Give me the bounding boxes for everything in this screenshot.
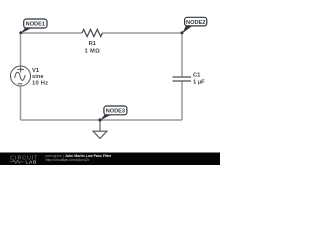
svg-text:10 Hz: 10 Hz xyxy=(32,80,48,86)
ground symbol triangle xyxy=(93,131,107,138)
node NODE2 callout tail xyxy=(182,26,193,34)
wire right from NODE2 corner down to C1 top plate xyxy=(181,33,183,77)
wire bottom rail xyxy=(21,119,183,121)
wire right from C1 bottom plate down to bottom rail xyxy=(181,81,183,120)
svg-text:LAB: LAB xyxy=(26,160,37,165)
svg-text:1 µF: 1 µF xyxy=(193,80,205,86)
junction dot at ground tap xyxy=(98,118,101,121)
svg-text:NODE2: NODE2 xyxy=(186,20,205,26)
node NODE1 callout tail xyxy=(21,28,32,34)
footer logo zigzag xyxy=(10,160,24,163)
voltage source V1 circle xyxy=(11,66,31,86)
svg-text:R1: R1 xyxy=(89,41,97,47)
ground stub wire xyxy=(99,120,101,131)
V1 minus sign xyxy=(18,83,23,85)
svg-text:NODE1: NODE1 xyxy=(26,21,45,27)
svg-text:NODE3: NODE3 xyxy=(106,109,125,115)
wire top from resistor R1 right lead to NODE2 corner xyxy=(103,32,183,34)
svg-text:V1: V1 xyxy=(32,68,40,74)
node NODE3 box xyxy=(104,106,127,115)
V1 plus sign xyxy=(17,66,24,72)
node NODE2 box xyxy=(185,17,207,26)
capacitor C1 top plate xyxy=(173,76,192,78)
svg-text:1 MΩ: 1 MΩ xyxy=(85,48,101,54)
junction dot at NODE2 corner xyxy=(181,31,184,34)
svg-text:C1: C1 xyxy=(193,73,201,79)
node NODE1 box xyxy=(24,19,47,28)
resistor R1 zigzag xyxy=(82,29,103,36)
capacitor C1 bottom plate xyxy=(173,80,192,82)
wire left from V1 bottom down to bottom rail xyxy=(20,87,22,121)
junction dot at NODE1 corner xyxy=(19,31,22,34)
svg-text:sine: sine xyxy=(32,74,44,80)
footer bar xyxy=(0,153,220,166)
wire top from NODE1 corner to resistor R1 left lead xyxy=(21,32,83,34)
V1 sine wave xyxy=(15,72,26,80)
svg-text:http://circuitlab.com/c6cv42t: http://circuitlab.com/c6cv42t xyxy=(46,158,89,162)
wire left from NODE1 corner down to V1 top xyxy=(20,33,22,66)
node NODE3 callout tail xyxy=(100,115,111,121)
